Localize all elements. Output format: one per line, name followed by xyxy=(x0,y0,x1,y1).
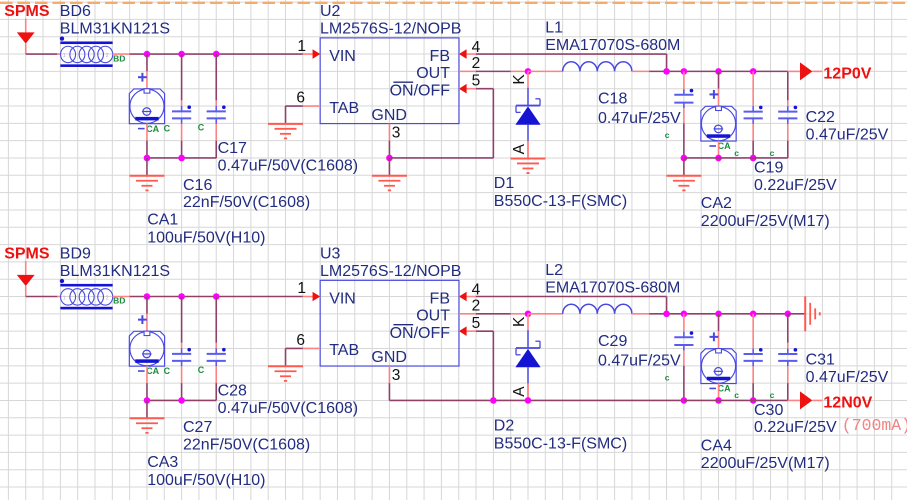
svg-text:100uF/50V(H10): 100uF/50V(H10) xyxy=(147,472,265,489)
junction node input-C xyxy=(213,51,220,58)
label BD6 xyxy=(60,3,91,20)
svg-text:1: 1 xyxy=(297,38,306,55)
pin 6 TAB (U3) xyxy=(303,347,320,349)
ferrite bead BD9 xyxy=(60,279,126,310)
value label CA3 xyxy=(147,472,265,489)
label D1 xyxy=(494,175,515,192)
pin 4 FB (U3) xyxy=(459,292,476,302)
svg-text:1: 1 xyxy=(63,296,66,302)
wire input node to CA1 xyxy=(146,54,148,89)
svg-text:0.47uF/25V: 0.47uF/25V xyxy=(598,110,681,127)
svg-text:LM2576S-12/NOPB: LM2576S-12/NOPB xyxy=(320,21,461,38)
wire C19 to lower rail xyxy=(752,124,754,158)
node K label (D2) xyxy=(511,316,528,327)
wire input node to C16 xyxy=(181,54,183,106)
svg-text:BD9: BD9 xyxy=(60,246,91,263)
svg-text:U3: U3 xyxy=(320,246,341,263)
op-amp U3 LM2576 regulator body xyxy=(320,280,459,366)
junction out-C18col xyxy=(681,68,688,75)
green c mark (CA2) xyxy=(734,148,739,158)
svg-text:U2: U2 xyxy=(320,3,341,20)
svg-text:0.47uF/25V: 0.47uF/25V xyxy=(598,353,681,370)
ground (D1 anode) xyxy=(511,141,546,174)
ground (left filter) xyxy=(129,400,164,433)
svg-text:LM2576S-12/NOPB: LM2576S-12/NOPB xyxy=(320,263,461,280)
svg-text:2: 2 xyxy=(472,55,481,72)
svg-text:CA: CA xyxy=(146,124,159,134)
wire ON/OFF to lower rail xyxy=(476,331,493,400)
ground (TAB) xyxy=(268,106,303,139)
junction node input-A xyxy=(144,51,151,58)
wire input node to C28 xyxy=(215,297,217,349)
svg-text:SPMS: SPMS xyxy=(4,246,50,263)
svg-text:C31: C31 xyxy=(806,351,835,368)
wire C22 to lower rail xyxy=(787,124,789,158)
pin 1 VIN (U2) xyxy=(303,49,320,59)
wire OUT to diode node xyxy=(476,313,528,315)
svg-text:C19: C19 xyxy=(754,159,783,176)
svg-text:0.22uF/25V: 0.22uF/25V xyxy=(754,177,837,194)
svg-text:6: 6 xyxy=(296,90,305,107)
wire lower rail right xyxy=(684,399,788,401)
pin 2 OUT (U2) xyxy=(459,70,476,72)
pin name OUT (U3) xyxy=(416,307,450,324)
svg-text:A: A xyxy=(511,143,528,154)
junction diode-K node xyxy=(525,68,532,75)
junction out-CA2col xyxy=(715,68,722,75)
svg-text:ON/OFF: ON/OFF xyxy=(390,325,451,342)
svg-text:L1: L1 xyxy=(545,20,563,37)
svg-text:0.47uF/50V(C1608): 0.47uF/50V(C1608) xyxy=(218,158,359,175)
capacitor C29 xyxy=(674,331,693,350)
svg-text:3: 3 xyxy=(392,367,401,384)
pin number 6 xyxy=(296,332,305,349)
wire CA2 to lower rail xyxy=(718,141,720,158)
pin name VIN (U2) xyxy=(329,48,356,65)
label D2 xyxy=(494,418,515,435)
capacitor CA3 (electrolytic) xyxy=(129,315,164,366)
label CA1 xyxy=(147,212,178,229)
node A label (D2) xyxy=(511,386,528,397)
value label CA1 xyxy=(147,230,265,247)
wire OUT to diode node xyxy=(476,70,528,72)
pin number 5 xyxy=(472,72,481,89)
junction out-C19col xyxy=(750,68,757,75)
pin name ON/OFF (U2) xyxy=(390,82,451,99)
junction out-C18col xyxy=(681,311,688,318)
svg-text:CA: CA xyxy=(146,366,159,376)
capacitor C30 xyxy=(744,348,763,366)
wire output rail to C30 xyxy=(752,314,754,349)
svg-text:22nF/50V(C1608): 22nF/50V(C1608) xyxy=(183,437,310,454)
svg-text:0.22uF/25V: 0.22uF/25V xyxy=(754,419,837,436)
junction ON/OFF-rail xyxy=(490,397,497,404)
junction node input-A xyxy=(144,293,151,300)
green c mark (CA4) xyxy=(734,390,739,400)
svg-text:0.47uF/25V: 0.47uF/25V xyxy=(806,369,889,386)
label U3 xyxy=(320,246,341,263)
value label C27 xyxy=(183,437,310,454)
value label C16 xyxy=(183,194,310,211)
svg-text:EMA17070S-680M: EMA17070S-680M xyxy=(545,279,680,296)
wire bead to VIN xyxy=(113,296,303,298)
pin 6 TAB (U2) xyxy=(303,105,320,107)
wire bead to VIN xyxy=(113,53,303,55)
svg-text:5: 5 xyxy=(472,72,481,89)
svg-text:CA: CA xyxy=(718,384,731,394)
value label D1 xyxy=(494,193,627,210)
junction FB-output xyxy=(663,68,670,75)
svg-text:c: c xyxy=(665,130,670,140)
junction gnd-C30 xyxy=(750,397,757,404)
wire lower rail right xyxy=(684,157,788,159)
svg-text:2200uF/25V(M17): 2200uF/25V(M17) xyxy=(701,455,830,472)
pin 3 GND (U2) xyxy=(388,124,390,141)
pin 2 OUT (U3) xyxy=(459,313,476,315)
svg-text:c: c xyxy=(734,148,739,158)
ground (output filter) xyxy=(666,158,701,191)
value label C17 xyxy=(218,158,359,175)
svg-text:2: 2 xyxy=(106,53,109,59)
wire FB to output node xyxy=(476,54,667,71)
junction node input-B xyxy=(178,51,185,58)
svg-text:2: 2 xyxy=(106,296,109,302)
wire output rail to C29 xyxy=(683,314,685,332)
svg-text:VIN: VIN xyxy=(329,48,356,65)
value label CA2 xyxy=(701,213,830,230)
value label BLM31KN121S (BD9) xyxy=(60,263,170,280)
wire input node to C17 xyxy=(215,54,217,106)
label CA3 xyxy=(147,454,178,471)
svg-text:C30: C30 xyxy=(754,402,783,419)
wire output rail to CA4 xyxy=(718,314,720,349)
wire diode node to L2 xyxy=(528,313,563,315)
svg-text:C16: C16 xyxy=(183,177,212,194)
svg-text:D1: D1 xyxy=(494,175,515,192)
wire output rail to CA2 xyxy=(718,71,720,106)
label C31 xyxy=(806,351,835,368)
capacitor C18 xyxy=(674,89,693,108)
capacitor C17 xyxy=(207,105,226,124)
label L2 xyxy=(545,262,563,279)
value label C29 xyxy=(598,353,681,370)
pin name FB (U2) xyxy=(430,48,450,65)
junction gnd-C29 xyxy=(681,397,688,404)
pin number 2 xyxy=(472,298,481,315)
label C29 xyxy=(598,333,627,350)
svg-text:C17: C17 xyxy=(218,140,247,157)
label C22 xyxy=(806,109,835,126)
wire C17 to ground rail xyxy=(215,124,217,158)
capacitor C27 xyxy=(172,348,191,366)
svg-text:c: c xyxy=(734,390,739,400)
svg-text:C: C xyxy=(198,122,205,132)
wire output rail to C19 xyxy=(752,71,754,106)
label C28 xyxy=(218,383,247,400)
pin name ON/OFF (U3) xyxy=(390,325,451,342)
node K label (D1) xyxy=(511,74,528,85)
junction gnd-CA4 xyxy=(715,397,722,404)
wire 12N0V rail middle segment xyxy=(493,399,684,401)
wire gnd rail (12N0V net) xyxy=(389,399,493,401)
ground (output of negative regulator) xyxy=(788,296,820,331)
pin name GND (U2) xyxy=(371,107,407,124)
label C16 xyxy=(183,177,212,194)
pin 1 VIN (U3) xyxy=(303,292,320,302)
pin number 3 xyxy=(392,124,401,141)
svg-text:C28: C28 xyxy=(218,383,247,400)
svg-text:D2: D2 xyxy=(494,418,515,435)
junction left-gnd-B xyxy=(178,397,185,404)
capacitor CA1 (electrolytic) xyxy=(129,73,164,124)
svg-text:A: A xyxy=(511,386,528,397)
junction node input-C xyxy=(213,293,220,300)
svg-text:5: 5 xyxy=(472,315,481,332)
ground (left filter) xyxy=(129,158,164,191)
capacitor C19 xyxy=(744,106,763,124)
svg-text:SPMS: SPMS xyxy=(4,3,50,20)
value label C28 xyxy=(218,400,359,417)
junction FB-output xyxy=(663,311,670,318)
pin 3 GND (U3) xyxy=(388,366,390,383)
wire input node to C27 xyxy=(181,297,183,349)
wire CA3 to ground rail xyxy=(146,366,148,400)
green c mark (C18) xyxy=(665,130,670,140)
svg-text:(700mA): (700mA) xyxy=(842,416,907,435)
svg-text:0.47uF/25V: 0.47uF/25V xyxy=(806,126,889,143)
junction out-C19col xyxy=(750,311,757,318)
svg-text:FB: FB xyxy=(430,290,450,307)
svg-text:OUT: OUT xyxy=(416,307,450,324)
label BD9 xyxy=(60,246,91,263)
svg-text:CA3: CA3 xyxy=(147,454,178,471)
wire D2 anode to 12N0V rail xyxy=(527,383,529,400)
svg-text:C22: C22 xyxy=(806,109,835,126)
inductor L1 xyxy=(563,62,632,72)
svg-text:ON/OFF: ON/OFF xyxy=(390,82,451,99)
pin name OUT (U2) xyxy=(416,65,450,82)
label C18 xyxy=(598,90,627,107)
wire diode node to L1 xyxy=(528,70,563,72)
svg-text:CA4: CA4 xyxy=(701,438,732,455)
wire pin3 junction to ON/OFF column xyxy=(389,157,493,159)
wire pin3 down xyxy=(388,141,390,158)
svg-text:GND: GND xyxy=(371,107,407,124)
value label BLM31KN121S (BD6) xyxy=(60,21,170,38)
value label C31 xyxy=(806,369,889,386)
power port 12P0V xyxy=(788,62,872,82)
green C mark (C16) xyxy=(198,122,205,132)
wire SPMS to bead xyxy=(26,53,61,55)
pin 5 ON/OFF (U2) xyxy=(459,84,476,94)
wire output rail to C31 xyxy=(787,314,789,349)
svg-text:12P0V: 12P0V xyxy=(823,65,871,82)
wire left ground rail xyxy=(147,157,216,159)
green c mark (C19) xyxy=(770,148,775,158)
svg-text:1: 1 xyxy=(63,53,66,59)
wire C30 to lower rail xyxy=(752,366,754,400)
pin name GND (U3) xyxy=(371,349,407,366)
wire output rail to C22 xyxy=(787,71,789,106)
ground (TAB) xyxy=(268,348,303,381)
svg-text:OUT: OUT xyxy=(416,65,450,82)
svg-text:BLM31KN121S: BLM31KN121S xyxy=(60,21,170,38)
capacitor C16 xyxy=(172,105,191,124)
svg-text:TAB: TAB xyxy=(329,342,359,359)
value label C19 xyxy=(754,177,837,194)
value label L1 xyxy=(545,37,680,54)
junction D2-anode-rail xyxy=(525,397,532,404)
junction out-C31col xyxy=(785,311,792,318)
wire ON/OFF to lower rail xyxy=(476,89,493,158)
wire C18 to lower rail xyxy=(683,108,685,158)
svg-text:2: 2 xyxy=(472,298,481,315)
pin name VIN (U3) xyxy=(329,290,356,307)
wire left ground rail xyxy=(147,399,216,401)
wire SPMS to bead xyxy=(26,296,61,298)
svg-text:K: K xyxy=(511,316,528,327)
label CA4 xyxy=(701,438,732,455)
capacitor C28 xyxy=(207,348,226,366)
pin number 4 xyxy=(472,281,481,298)
pin number 4 xyxy=(472,39,481,56)
junction node input-B xyxy=(178,293,185,300)
wire C29 to lower rail xyxy=(683,351,685,401)
svg-text:0.47uF/50V(C1608): 0.47uF/50V(C1608) xyxy=(218,400,359,417)
polarity label -CA (CA4) xyxy=(709,384,731,394)
pin 5 ON/OFF (U3) xyxy=(459,326,476,336)
current note (700mA) xyxy=(842,416,907,435)
ground (pin 3) xyxy=(372,158,407,191)
junction diode-K node xyxy=(525,311,532,318)
svg-text:3: 3 xyxy=(392,124,401,141)
junction out-CA2col xyxy=(715,311,722,318)
power port SPMS-top (SPMS input) xyxy=(4,3,50,54)
junction gnd-C18 xyxy=(681,155,688,162)
green c mark (C30) xyxy=(770,390,775,400)
junction pin3-gnd xyxy=(386,155,393,162)
svg-text:2200uF/25V(M17): 2200uF/25V(M17) xyxy=(701,213,830,230)
svg-text:CA1: CA1 xyxy=(147,212,178,229)
capacitor C22 xyxy=(778,106,797,124)
svg-text:C: C xyxy=(164,366,171,376)
svg-text:EMA17070S-680M: EMA17070S-680M xyxy=(545,37,680,54)
power port SPMS-bottom (SPMS input) xyxy=(4,246,50,297)
svg-text:TAB: TAB xyxy=(329,100,359,117)
label L1 xyxy=(545,20,563,37)
capacitor CA4 (electrolytic) xyxy=(701,332,736,383)
value label C30 xyxy=(754,419,837,436)
svg-text:1: 1 xyxy=(297,280,306,297)
svg-text:c: c xyxy=(665,372,670,382)
label C30 xyxy=(754,402,783,419)
wire C16 to ground rail xyxy=(181,124,183,158)
value label CA4 xyxy=(701,455,830,472)
inductor L2 xyxy=(563,304,632,314)
capacitor CA2 (electrolytic) xyxy=(701,90,736,141)
value label LM2576S-12/NOPB (U3) xyxy=(320,263,461,280)
capacitor C31 xyxy=(778,348,797,366)
polarity label -CA (CA2) xyxy=(709,141,731,151)
green c mark (C29) xyxy=(665,372,670,382)
svg-text:C29: C29 xyxy=(598,333,627,350)
polarity label -CA (CA3) xyxy=(138,366,171,376)
wire input node to CA3 xyxy=(146,297,148,332)
svg-text:C: C xyxy=(198,365,205,375)
pin number 5 xyxy=(472,315,481,332)
pin number 6 xyxy=(296,90,305,107)
svg-text:B550C-13-F(SMC): B550C-13-F(SMC) xyxy=(494,193,627,210)
wire FB to output node xyxy=(476,297,667,314)
power port 12N0V xyxy=(788,391,873,411)
diode D1 (schottky) xyxy=(515,71,540,158)
svg-text:L2: L2 xyxy=(545,262,563,279)
svg-text:B550C-13-F(SMC): B550C-13-F(SMC) xyxy=(494,435,627,452)
svg-text:BLM31KN121S: BLM31KN121S xyxy=(60,263,170,280)
ferrite bead BD6 xyxy=(60,36,126,67)
wire pin3 down xyxy=(388,383,390,400)
value label C22 xyxy=(806,126,889,143)
wire CA1 to ground rail xyxy=(146,124,148,158)
pin 4 FB (U2) xyxy=(459,49,476,59)
wire L1 to output rail xyxy=(632,70,788,72)
polarity label -CA (CA1) xyxy=(138,123,171,133)
pin name FB (U3) xyxy=(430,290,450,307)
svg-text:BD6: BD6 xyxy=(60,3,91,20)
svg-text:C18: C18 xyxy=(598,90,627,107)
svg-text:22nF/50V(C1608): 22nF/50V(C1608) xyxy=(183,194,310,211)
value label L2 xyxy=(545,279,680,296)
wire output rail to C18 xyxy=(683,71,685,89)
svg-text:FB: FB xyxy=(430,48,450,65)
junction left-gnd-A xyxy=(144,155,151,162)
value label D2 xyxy=(494,435,627,452)
svg-text:c: c xyxy=(770,390,775,400)
pin number 1 xyxy=(297,38,306,55)
pin name TAB (U3) xyxy=(329,342,359,359)
node A label (D1) xyxy=(511,143,528,154)
svg-text:6: 6 xyxy=(296,332,305,349)
wire TAB to ground xyxy=(286,105,303,107)
value label C18 xyxy=(598,110,681,127)
label U2 xyxy=(320,3,341,20)
junction left-gnd-B xyxy=(178,155,185,162)
wire C28 to ground rail xyxy=(215,366,217,400)
svg-text:12N0V: 12N0V xyxy=(823,394,872,411)
label C17 xyxy=(218,140,247,157)
diode D2 (schottky) xyxy=(515,314,540,401)
pin name TAB (U2) xyxy=(329,100,359,117)
junction gnd-CA2 xyxy=(715,155,722,162)
pin number 2 xyxy=(472,55,481,72)
wire L2 to output rail xyxy=(632,313,788,315)
svg-text:C27: C27 xyxy=(183,419,212,436)
svg-text:GND: GND xyxy=(371,349,407,366)
label CA2 xyxy=(701,195,732,212)
pin number 3 xyxy=(392,367,401,384)
value label LM2576S-12/NOPB (U2) xyxy=(320,21,461,38)
svg-text:100uF/50V(H10): 100uF/50V(H10) xyxy=(147,230,265,247)
green C mark (C27) xyxy=(198,365,205,375)
svg-text:CA: CA xyxy=(718,141,731,151)
pin number 1 xyxy=(297,280,306,297)
op-amp U2 LM2576 regulator body xyxy=(320,38,459,124)
svg-text:c: c xyxy=(770,148,775,158)
wire TAB to ground xyxy=(286,347,303,349)
label C19 xyxy=(754,159,783,176)
wire C27 to ground rail xyxy=(181,366,183,400)
svg-text:CA2: CA2 xyxy=(701,195,732,212)
